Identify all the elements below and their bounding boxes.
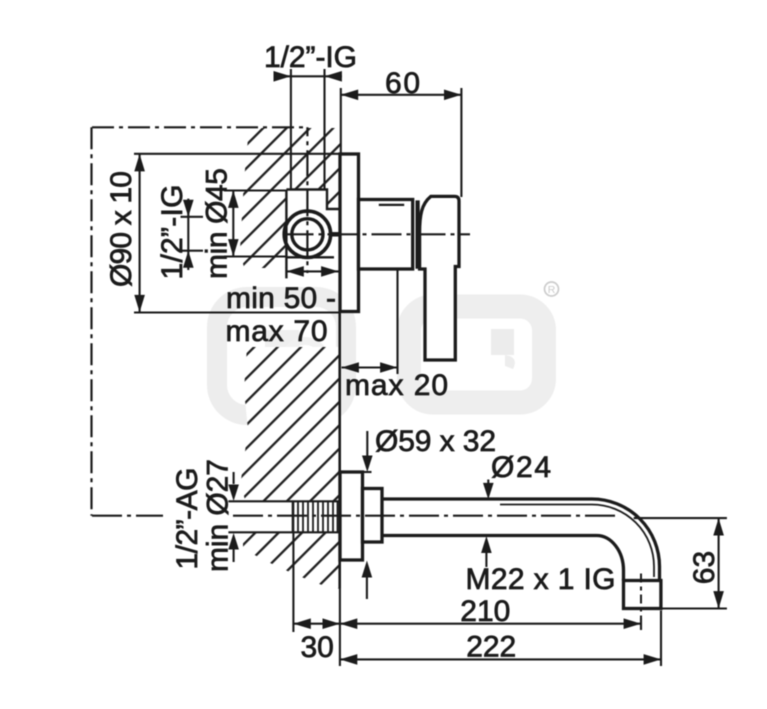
valve stem tick over plate	[332, 232, 340, 237]
dimension 210: line and arrows	[340, 623, 641, 625]
dimension O59x32 leader down arrow	[366, 431, 368, 458]
dimension 222: line and arrows	[340, 658, 661, 660]
watermark registered mark	[545, 282, 559, 296]
svg-text:1/2”-AG: 1/2”-AG	[171, 468, 204, 570]
watermark logo glyph 1 (rounded ring)	[217, 297, 346, 415]
flange top tick	[363, 471, 372, 473]
dimension O24 leader arrow	[487, 480, 489, 486]
dimension 210 extension	[640, 618, 642, 630]
dimension 30: line and arrows	[293, 623, 340, 625]
svg-text:1/2”-IG: 1/2”-IG	[264, 41, 357, 74]
svg-text:Ø90 x 10: Ø90 x 10	[105, 171, 138, 287]
svg-text:63: 63	[688, 551, 721, 584]
spout tube	[382, 499, 660, 581]
valve cartridge body	[359, 200, 413, 270]
svg-text:R: R	[548, 284, 556, 296]
svg-text:30: 30	[301, 631, 334, 664]
dimension 60: extension lines	[340, 88, 342, 154]
valve body circle inner	[292, 219, 323, 250]
spout tube inner wall line	[500, 505, 654, 578]
dimension 60: line and arrows	[341, 94, 462, 96]
svg-text:1/2”-IG: 1/2”-IG	[156, 185, 189, 280]
svg-text:min Ø27: min Ø27	[202, 459, 235, 572]
wall face line	[338, 312, 341, 589]
svg-text:M22 x 1 IG: M22 x 1 IG	[466, 563, 616, 596]
svg-text:max 20: max 20	[345, 369, 448, 402]
valve vertical centerline	[306, 127, 308, 273]
dimension O27: arrows	[233, 472, 235, 484]
dimension 1/2"-IG top: line and arrows	[274, 75, 343, 77]
svg-text:60: 60	[385, 67, 420, 100]
svg-text:210: 210	[460, 595, 510, 628]
dimension O90x10: line and arrows	[139, 154, 141, 312]
threaded nipple	[293, 501, 338, 532]
dimension min 50 - max 70: arrows	[286, 270, 338, 272]
dimension min O45: line and arrows	[232, 191, 234, 257]
dimension 30/210/222 left extension lines	[292, 533, 294, 633]
body detail line	[379, 204, 404, 206]
svg-text:Ø24: Ø24	[491, 451, 551, 484]
pipe centerline bottom	[92, 515, 163, 517]
supply pipe bottom edge	[228, 531, 339, 533]
dimension 63: line and arrows	[718, 518, 720, 608]
recess pocket outline	[286, 190, 339, 279]
dimension min O45: ticks	[224, 189, 286, 191]
wall hatching middle band	[241, 347, 340, 501]
dimension 222 extension	[660, 611, 662, 667]
aerator centerline	[640, 574, 642, 619]
wall outline dash-dot left edge	[90, 127, 92, 515]
svg-text:222: 222	[466, 631, 516, 664]
wall outline dash-dot top edge	[92, 126, 308, 128]
supply pipe top edge	[228, 500, 339, 502]
valve horizontal centerline	[284, 233, 471, 235]
valve body circle outer	[284, 211, 330, 257]
svg-text:min Ø45: min Ø45	[201, 168, 234, 279]
spout flange	[340, 472, 363, 560]
dimension O90x10: extension lines	[134, 153, 341, 155]
dimension O59x32 leader up arrow	[362, 561, 373, 578]
dimension max 20: extension line	[396, 269, 398, 374]
spout hub step	[363, 489, 383, 543]
dimension 1/2"-IG side: ticks arrows	[187, 199, 189, 270]
svg-text:Ø59 x 32: Ø59 x 32	[375, 425, 496, 458]
wall hatching top band	[240, 128, 340, 268]
dimension max 20: line and arrows	[342, 366, 398, 368]
wall hatching bottom band	[243, 532, 340, 589]
handle neck joint	[416, 200, 420, 268]
escutcheon plate (side view)	[340, 154, 359, 312]
handle lever	[420, 196, 459, 360]
svg-text:min 50 -: min 50 -	[226, 282, 336, 315]
dimension 1/2"-IG top: extension lines	[290, 69, 292, 190]
dimension M22 leader arrow	[481, 536, 492, 553]
watermark logo glyph 2 (rounded ring)	[409, 307, 544, 403]
svg-text:max 70: max 70	[226, 315, 328, 348]
dimension 63: extension lines	[634, 517, 727, 519]
aerator end piece	[624, 581, 661, 609]
